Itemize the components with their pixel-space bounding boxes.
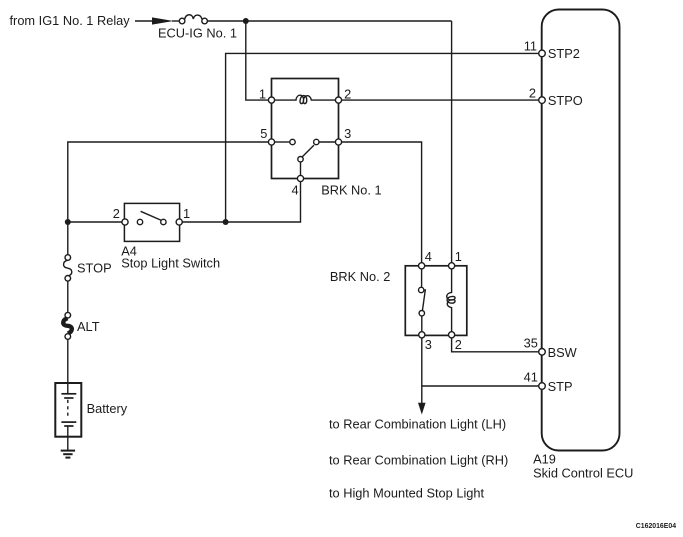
BRK No.1 pivot xyxy=(298,157,303,162)
fuse ECU-IG No. 1 xyxy=(179,15,207,24)
ECU pin 41 STP xyxy=(539,383,546,390)
svg-text:from IG1 No. 1 Relay: from IG1 No. 1 Relay xyxy=(10,13,131,28)
BRK No.1 moving contact xyxy=(314,139,319,144)
wire STP2 net: ECU pin 11 to switch output node xyxy=(226,53,539,222)
wire arrow to fuse xyxy=(172,20,179,22)
wire left rail ALT link to battery xyxy=(67,339,69,394)
wire down to BRK No.1 pin 1 xyxy=(246,21,268,100)
fuse STOP xyxy=(64,255,72,281)
svg-text:ALT: ALT xyxy=(77,319,100,334)
svg-text:2: 2 xyxy=(344,86,351,101)
svg-text:to Rear Combination Light (RH): to Rear Combination Light (RH) xyxy=(329,452,508,467)
stop light switch right contact xyxy=(161,219,166,224)
wire left rail STOP fuse to ALT link xyxy=(67,281,69,312)
wire battery to ground xyxy=(67,437,69,450)
svg-text:2: 2 xyxy=(529,86,536,101)
coil of BRK No.1 xyxy=(275,95,336,103)
svg-text:to Rear Combination Light (LH): to Rear Combination Light (LH) xyxy=(329,416,506,431)
wire switch pin 1 to BRK No.1 pin 4 xyxy=(182,182,300,222)
svg-text:2: 2 xyxy=(113,206,120,221)
relay BRK No. 2 xyxy=(405,266,467,336)
BRK No.1 fixed contact xyxy=(290,139,295,144)
wire fuse to BRK No.2 coil feed (top rail) xyxy=(207,20,451,22)
wire from IG1 relay arrow lead xyxy=(135,20,156,22)
fusible link ALT xyxy=(62,312,72,339)
BRK No.2 pin 1 xyxy=(449,263,455,269)
svg-text:STOP: STOP xyxy=(77,261,112,276)
stop light switch pin 1 xyxy=(176,219,182,225)
stop light switch pin 2 xyxy=(122,219,128,225)
BRK No.2 pin 2 xyxy=(449,332,455,338)
switch blade of BRK No.1 xyxy=(302,145,314,157)
svg-text:5: 5 xyxy=(260,126,267,141)
wire BRK No.2 pin 3 to rear lights xyxy=(421,338,423,403)
svg-text:1: 1 xyxy=(455,249,462,264)
wire STP net: branch to ECU pin 41 xyxy=(422,385,539,387)
BRK No.2 bottom contact xyxy=(419,311,424,316)
wire BRK No.1 pin 5 to left rail xyxy=(68,142,269,255)
wire BRK No.1 pin 3 to BRK No.2 pin 4 xyxy=(342,142,422,263)
svg-text:2: 2 xyxy=(455,337,462,352)
BRK No.1 pin 1 xyxy=(268,97,274,103)
BRK No.1 pin 3 xyxy=(335,139,341,145)
svg-text:4: 4 xyxy=(291,182,298,197)
BRK No.2 top contact xyxy=(419,287,424,292)
ECU pin 2 STPO xyxy=(539,97,546,104)
svg-text:Battery: Battery xyxy=(87,401,128,416)
ECU pin 35 BSW xyxy=(539,349,546,356)
svg-text:BRK No. 2: BRK No. 2 xyxy=(330,269,390,284)
svg-text:41: 41 xyxy=(524,370,538,385)
svg-text:35: 35 xyxy=(524,336,538,351)
svg-text:to High Mounted Stop Light: to High Mounted Stop Light xyxy=(329,485,485,500)
junction left rail at switch branch xyxy=(65,219,71,225)
svg-text:BSW: BSW xyxy=(548,345,578,360)
wire STPO net: BRK No.1 pin 2 to ECU pin 2 xyxy=(342,99,539,101)
ground xyxy=(61,451,75,458)
svg-text:STP: STP xyxy=(548,379,573,394)
svg-text:BRK No. 1: BRK No. 1 xyxy=(321,182,381,197)
wire BRK No.1 pin 5 stub xyxy=(275,141,290,143)
BRK No.2 pin 3 xyxy=(419,332,425,338)
junction STP2 drop on switch output xyxy=(223,219,229,225)
wire left rail to stop light switch pin 2 xyxy=(68,221,122,223)
ECU pin 11 STP2 xyxy=(539,50,546,57)
wire BRK No.1 pin 3 stub xyxy=(319,141,336,143)
svg-text:A19: A19 xyxy=(533,451,556,466)
wire top rail down to BRK No.2 pin 1 xyxy=(451,21,453,263)
svg-text:11: 11 xyxy=(524,39,537,54)
BRK No.1 pin 2 xyxy=(335,97,341,103)
arrow to rear combination lights xyxy=(418,403,426,415)
junction top rail to BRK No.1 pin 1 xyxy=(243,18,249,24)
blade of stop light switch xyxy=(141,211,162,220)
svg-text:STP2: STP2 xyxy=(548,46,580,61)
svg-text:4: 4 xyxy=(425,249,432,264)
coil of BRK No.2 xyxy=(447,269,455,332)
svg-text:C162016E04: C162016E04 xyxy=(636,523,676,530)
switch A4 Stop Light Switch xyxy=(124,203,179,241)
stop light switch left contact xyxy=(137,219,142,224)
wire BRK No.1 pivot to pin 4 xyxy=(300,162,302,176)
svg-text:ECU-IG No. 1: ECU-IG No. 1 xyxy=(158,25,237,40)
BRK No.1 pin 5 xyxy=(268,139,274,145)
relay BRK No. 1 xyxy=(272,79,339,179)
wire BSW net: BRK No.2 pin 2 to ECU pin 35 xyxy=(452,338,539,352)
ECU A19 Skid Control ECU connector body xyxy=(542,10,620,451)
svg-text:1: 1 xyxy=(259,86,266,101)
wire BRK No.2 pin 4 to contact xyxy=(421,269,423,288)
battery xyxy=(55,383,81,437)
svg-text:Stop Light Switch: Stop Light Switch xyxy=(121,255,220,270)
svg-text:1: 1 xyxy=(183,206,190,221)
arrow into ECU-IG fuse xyxy=(152,17,174,24)
svg-text:STPO: STPO xyxy=(548,93,583,108)
svg-text:Skid Control ECU: Skid Control ECU xyxy=(533,466,633,481)
wire BRK No.2 contact to pin 3 xyxy=(421,316,423,332)
svg-text:3: 3 xyxy=(425,337,432,352)
BRK No.1 pin 4 xyxy=(297,175,303,181)
switch blade of BRK No.2 xyxy=(422,289,425,311)
svg-text:3: 3 xyxy=(344,126,351,141)
BRK No.2 pin 4 xyxy=(419,263,425,269)
